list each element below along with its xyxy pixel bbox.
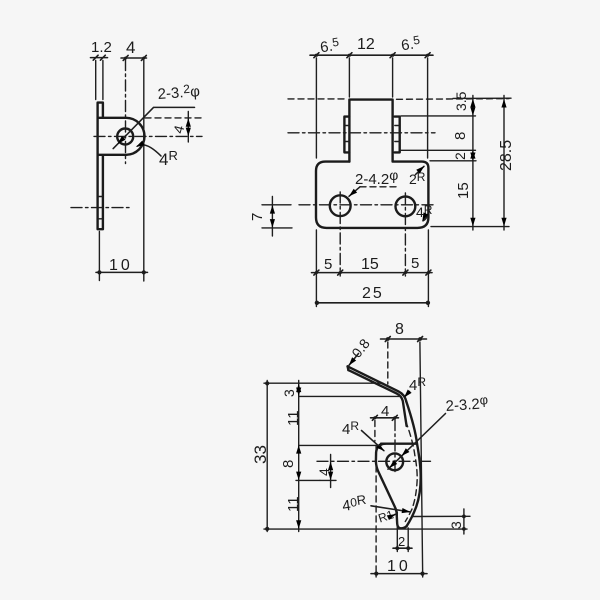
- svg-text:11: 11: [285, 410, 302, 426]
- svg-text:11: 11: [285, 496, 302, 512]
- svg-text:2: 2: [398, 534, 405, 549]
- dimension 7: [249, 197, 292, 237]
- centerline vertical left view: [125, 60, 127, 164]
- svg-text:33: 33: [251, 445, 270, 464]
- svg-text:8: 8: [280, 460, 297, 468]
- centerline horizontal lower left view: [71, 207, 131, 209]
- dimension 28.5: [498, 96, 515, 231]
- svg-text:1.2: 1.2: [91, 39, 112, 56]
- part outline bottom view: [376, 402, 421, 529]
- hole left view: [117, 129, 133, 145]
- svg-text:4: 4: [316, 468, 332, 476]
- svg-text:7: 7: [249, 213, 266, 221]
- hole bottom view: [386, 453, 403, 470]
- centerline vertical right hole: [404, 193, 406, 276]
- label 40R: [341, 492, 411, 515]
- svg-text:3: 3: [448, 521, 464, 529]
- svg-text:4: 4: [126, 38, 135, 57]
- centerline horizontal holes front view: [299, 204, 434, 206]
- dimension 1.2: [91, 39, 112, 100]
- svg-text:2: 2: [452, 152, 468, 160]
- centerline horizontal flanges front view: [288, 132, 435, 134]
- label 2-4.2dia: [347, 167, 398, 198]
- label 4R bend bottom view: [402, 375, 426, 399]
- svg-text:3.5: 3.5: [453, 91, 469, 111]
- label 4R left view: [135, 141, 178, 169]
- svg-text:28.5: 28.5: [498, 140, 515, 171]
- svg-text:15: 15: [361, 256, 379, 273]
- dimension 10 left view: [96, 232, 148, 281]
- dimension chain 3 11 8 11: [264, 381, 467, 532]
- projection line tab top: [288, 98, 509, 101]
- dimension 10 bottom view: [371, 446, 427, 577]
- svg-text:15: 15: [455, 182, 472, 199]
- label 2-3.2dia bottom view: [387, 392, 488, 470]
- label 2-3.2dia left view: [113, 81, 201, 149]
- svg-text:3: 3: [281, 389, 297, 397]
- right flange front view: [395, 117, 400, 153]
- svg-text:8: 8: [395, 321, 404, 338]
- part outline left view: [98, 103, 145, 230]
- dimension 3 bottom right: [413, 509, 470, 534]
- dimension 25: [315, 285, 430, 305]
- label 2R: [409, 164, 426, 187]
- label 4R front view: [416, 203, 433, 222]
- svg-text:5: 5: [324, 256, 332, 273]
- label t0.8: [347, 335, 373, 367]
- dimension 4 above hole bottom view: [371, 403, 399, 441]
- hidden bend line bottom view: [405, 421, 417, 522]
- dimension 4 right vertical left view: [145, 112, 202, 143]
- centerline vertical left hole: [339, 192, 341, 276]
- tab outline front view: [349, 100, 392, 162]
- svg-text:10: 10: [109, 257, 133, 274]
- centerline horizontal bottom view: [317, 460, 432, 462]
- svg-text:8: 8: [452, 132, 469, 140]
- dimension 2 foot: [393, 512, 412, 552]
- svg-text:12: 12: [357, 36, 375, 53]
- dimension 4 left bottom view: [316, 455, 336, 488]
- dimension 6.5 12 6.5: [310, 33, 433, 158]
- svg-text:10: 10: [387, 558, 411, 575]
- body outline front view: [316, 162, 428, 228]
- dimension 5 15 5: [312, 230, 433, 307]
- hole right front view: [396, 197, 416, 217]
- left flange front view: [344, 117, 349, 153]
- svg-text:25: 25: [362, 285, 384, 302]
- dimension 4 top left view: [121, 38, 147, 281]
- blade strip bottom view: [348, 366, 407, 426]
- dimension 8 bottom view: [381, 321, 427, 577]
- centerline horizontal left view: [94, 135, 202, 137]
- svg-text:5: 5: [411, 255, 419, 272]
- label R1 foot: [376, 507, 396, 525]
- label 4R hole corner bottom view: [342, 419, 386, 453]
- dimension chain 3.5 8 2 15: [401, 91, 511, 230]
- centerline vertical bottom view: [394, 420, 396, 475]
- dimension 33: [251, 381, 270, 532]
- svg-text:4: 4: [381, 403, 389, 420]
- hole left front view: [330, 195, 351, 216]
